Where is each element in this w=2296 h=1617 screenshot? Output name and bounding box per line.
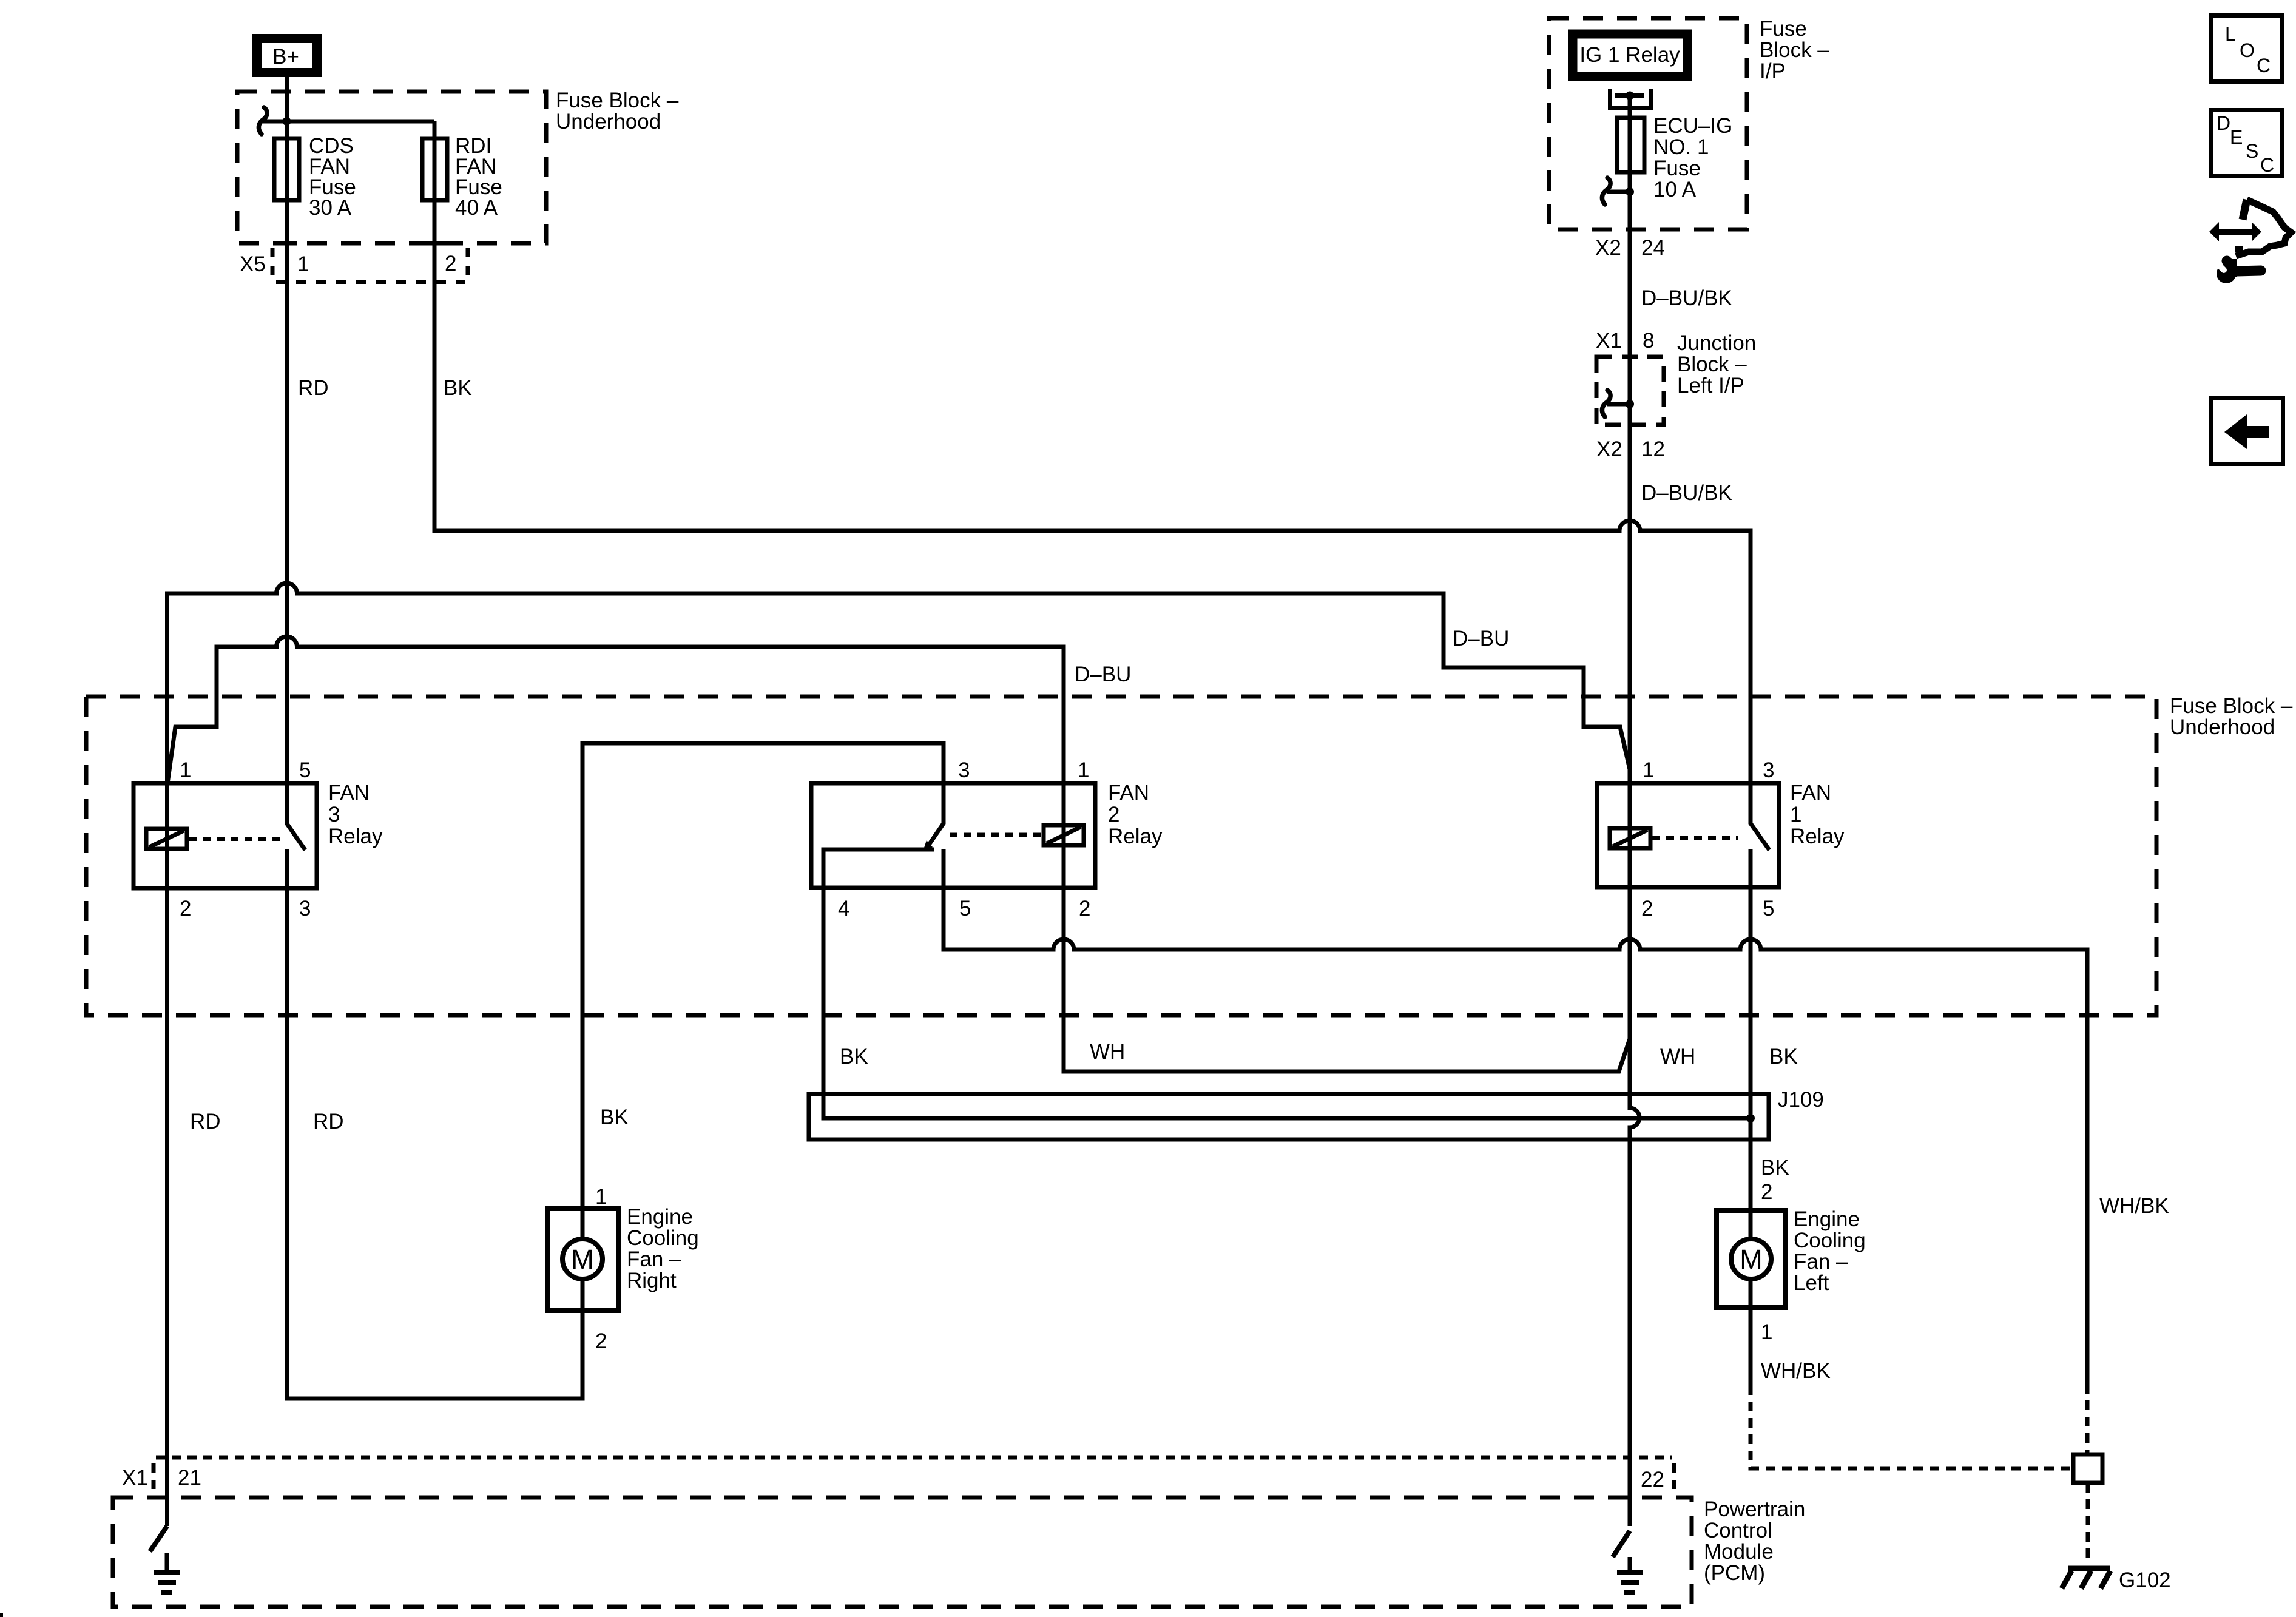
wire: D-BU net FAN 3 relay pin 1 to FAN 2 relay pin 1 — [167, 636, 1064, 783]
junction block J109 outline — [809, 1094, 1769, 1139]
svg-text:X1: X1 — [1596, 329, 1622, 353]
svg-text:3: 3 — [328, 803, 340, 826]
wire: FAN 1 relay pin 5 down through J109 to engine cooling fan left pin 2 (BK) — [1749, 888, 1753, 1239]
svg-text:D–BU: D–BU — [1075, 663, 1131, 686]
node: B+ feed split junction — [283, 117, 291, 126]
svg-text:D–BU: D–BU — [1453, 627, 1509, 650]
relay FAN 2 outline — [811, 783, 1095, 888]
svg-text:FAN: FAN — [1108, 781, 1149, 805]
svg-text:1: 1 — [297, 252, 309, 276]
fuse CDS FAN 30A — [274, 138, 299, 200]
svg-text:O: O — [2240, 39, 2255, 61]
svg-text:Relay: Relay — [328, 825, 383, 848]
svg-text:BK: BK — [444, 376, 472, 400]
svg-text:1: 1 — [180, 758, 191, 782]
svg-text:Fan –: Fan – — [627, 1247, 681, 1271]
svg-text:30 A: 30 A — [309, 196, 352, 220]
svg-text:2: 2 — [445, 252, 456, 275]
svg-text:Left I/P: Left I/P — [1677, 374, 1744, 397]
powertrain control module dashed box — [113, 1497, 1692, 1607]
svg-text:RD: RD — [313, 1110, 344, 1133]
relay FAN 3 switch — [287, 783, 306, 850]
svg-text:E: E — [2230, 126, 2243, 148]
svg-text:Block –: Block – — [1677, 353, 1747, 376]
power symbol B+ box — [257, 39, 317, 73]
node: ECU-IG fuse output junction — [1626, 187, 1634, 196]
svg-text:D–BU/BK: D–BU/BK — [1641, 481, 1732, 505]
svg-text:M: M — [1740, 1244, 1763, 1275]
ground connector square — [2073, 1454, 2102, 1483]
svg-text:D–BU/BK: D–BU/BK — [1641, 286, 1732, 310]
ground inside PCM (pin 22) — [1628, 1557, 1632, 1573]
svg-text:Powertrain: Powertrain — [1704, 1497, 1805, 1521]
svg-text:Underhood: Underhood — [556, 110, 661, 133]
wire: ground connector to G102 — [2086, 1483, 2090, 1564]
page corner mark — [0, 1613, 3, 1617]
ground G102 chassis symbol — [2068, 1566, 2110, 1571]
svg-text:1: 1 — [1761, 1320, 1772, 1344]
PCM internal switch to ground at pin 22 — [1613, 1531, 1630, 1557]
svg-text:G102: G102 — [2119, 1568, 2171, 1592]
motor engine cooling fan - right — [548, 1209, 619, 1311]
relay FAN 2 switch — [928, 783, 944, 846]
svg-text:3: 3 — [299, 897, 311, 920]
svg-text:X2: X2 — [1596, 437, 1622, 461]
junction block internal bus curl — [1602, 390, 1610, 417]
svg-text:IG 1 Relay: IG 1 Relay — [1579, 43, 1680, 67]
wire: FAN 1 relay pin 2 down to PCM pin 22 (WH) — [1630, 888, 1639, 1526]
svg-text:4: 4 — [838, 897, 849, 920]
connector X5 row dashed outline — [276, 280, 465, 284]
ground inside PCM (pin 21) — [165, 1553, 169, 1573]
icon LOC box — [2211, 16, 2282, 82]
svg-text:21: 21 — [178, 1466, 201, 1490]
wire: branch from B+ junction to RDI FAN fuse — [262, 120, 434, 124]
svg-text:Cooling: Cooling — [1794, 1229, 1866, 1252]
node: IG 1 relay output junction — [1626, 92, 1634, 100]
wire: engine cooling fan left pin 1 dashed run to ground splice — [1751, 1385, 2073, 1468]
relay box IG 1 Relay — [1573, 34, 1687, 76]
svg-text:D: D — [2217, 112, 2230, 134]
svg-text:5: 5 — [299, 758, 311, 782]
svg-text:X5: X5 — [240, 252, 266, 276]
svg-text:Fuse Block –: Fuse Block – — [556, 89, 679, 112]
svg-text:C: C — [2257, 55, 2271, 76]
svg-text:NO. 1: NO. 1 — [1653, 135, 1709, 159]
fuse block internal bus curl at B+ junction — [258, 107, 267, 134]
wire: FAN 1 relay internal coil feed — [1628, 783, 1632, 887]
svg-text:1: 1 — [1078, 758, 1089, 782]
svg-text:1: 1 — [1790, 803, 1801, 826]
relay FAN 3 outline — [133, 783, 317, 888]
svg-text:Right: Right — [627, 1269, 677, 1292]
junction block - left I/P dashed box — [1596, 357, 1664, 425]
svg-text:Fuse Block –: Fuse Block – — [2170, 694, 2293, 718]
svg-text:12: 12 — [1641, 437, 1665, 461]
svg-text:24: 24 — [1641, 236, 1665, 260]
svg-text:WH: WH — [1090, 1040, 1125, 1064]
svg-text:5: 5 — [959, 897, 971, 920]
svg-text:ECU–IG: ECU–IG — [1653, 114, 1732, 138]
svg-text:2: 2 — [1641, 897, 1653, 920]
wire: FAN 2 relay pin 3 to engine cooling fan right pin 1 (BK) — [582, 743, 944, 1239]
svg-text:Fan –: Fan – — [1794, 1250, 1848, 1274]
fuse block internal bus curl at ECU-IG fuse output — [1602, 178, 1610, 204]
svg-text:FAN: FAN — [328, 781, 370, 805]
fuse holder bracket below IG 1 Relay — [1610, 89, 1651, 109]
wire: FAN 2 relay internal coil feed — [1062, 783, 1066, 888]
svg-text:2: 2 — [1761, 1180, 1772, 1204]
wire: FAN 3 relay internal coil feed — [165, 783, 169, 888]
svg-text:RD: RD — [190, 1110, 221, 1133]
svg-text:(PCM): (PCM) — [1704, 1561, 1765, 1585]
svg-text:Cooling: Cooling — [627, 1226, 699, 1250]
svg-text:J109: J109 — [1778, 1088, 1824, 1112]
wire: FAN 2 relay pin 4 to J109 splice (BK) — [823, 888, 1751, 1118]
wire: right WH/BK dashed to ground connector — [2085, 1384, 2090, 1454]
fuse block - underhood (middle) dashed box — [86, 697, 2156, 1015]
wire: FAN 1/FAN 2 relay pin 5 run to right WH/BK drop — [944, 888, 2087, 1384]
svg-text:Engine: Engine — [1794, 1207, 1860, 1231]
svg-text:BK: BK — [840, 1045, 868, 1068]
svg-text:Underhood: Underhood — [2170, 715, 2275, 739]
svg-text:Fuse: Fuse — [1653, 157, 1701, 180]
wire: IG1 relay through ECU-IG fuse down to FAN 1 relay pin 1 (D-BU/BK) — [1628, 96, 1632, 784]
svg-text:B+: B+ — [272, 45, 299, 69]
svg-text:S: S — [2246, 140, 2258, 162]
svg-text:40 A: 40 A — [455, 196, 498, 220]
svg-text:Relay: Relay — [1790, 825, 1845, 848]
svg-text:3: 3 — [958, 758, 970, 782]
icon back-arrow box — [2211, 399, 2283, 464]
svg-text:WH/BK: WH/BK — [2099, 1194, 2169, 1218]
svg-text:10 A: 10 A — [1653, 178, 1697, 201]
relay FAN 3 coil-switch link — [189, 837, 283, 841]
PCM internal switch to ground at pin 21 — [150, 1526, 167, 1551]
fuse block - I/P dashed box — [1549, 18, 1747, 229]
fuse ECU-IG NO. 1 10A — [1617, 118, 1644, 172]
svg-text:BK: BK — [1769, 1045, 1798, 1068]
svg-text:Engine: Engine — [627, 1205, 693, 1229]
svg-text:5: 5 — [1763, 897, 1774, 920]
svg-text:X2: X2 — [1595, 236, 1621, 260]
svg-text:Module: Module — [1704, 1540, 1774, 1564]
wire: engine cooling fan left pin 1 (WH/BK) solid part — [1749, 1279, 1753, 1385]
wire: engine cooling fan right pin 2 to FAN 3 relay pin 3 (RD) — [287, 888, 583, 1399]
svg-text:X1: X1 — [122, 1466, 148, 1490]
wire: RDI FAN fuse drop, down then right to FAN 1 relay pin 3 (BK) — [434, 121, 1751, 783]
svg-text:FAN: FAN — [1790, 781, 1831, 805]
svg-text:WH: WH — [1660, 1045, 1695, 1068]
relay FAN 3 coil — [146, 829, 187, 849]
icon DESC box — [2211, 110, 2282, 177]
node: J109 splice junction — [1746, 1114, 1755, 1122]
svg-text:WH/BK: WH/BK — [1761, 1359, 1831, 1383]
svg-text:I/P: I/P — [1760, 59, 1786, 83]
svg-text:3: 3 — [1763, 758, 1774, 782]
svg-text:M: M — [571, 1244, 594, 1275]
svg-text:Fuse: Fuse — [1760, 17, 1807, 41]
wire: FAN 3 relay pin 2 down to PCM pin 21 (RD) — [165, 888, 169, 1526]
wire: D-BU net FAN 3 relay pin 1 to FAN 1 relay pin 1 — [167, 583, 1630, 783]
svg-text:1: 1 — [1643, 758, 1654, 782]
svg-text:2: 2 — [1108, 803, 1119, 826]
svg-text:2: 2 — [1079, 897, 1090, 920]
svg-text:22: 22 — [1641, 1468, 1664, 1491]
wire: B+ down through CDS FAN fuse to FAN 3 relay pin 5 (RD) — [285, 77, 289, 783]
svg-text:Block –: Block – — [1760, 38, 1829, 62]
svg-text:L: L — [2225, 23, 2236, 45]
svg-text:2: 2 — [180, 897, 191, 920]
svg-text:1: 1 — [595, 1185, 607, 1209]
relay FAN 2 coil-switch link — [950, 833, 1042, 837]
motor engine cooling fan - left — [1717, 1210, 1786, 1308]
svg-text:Relay: Relay — [1108, 825, 1163, 848]
fuse block - underhood (top) dashed box — [237, 92, 546, 243]
svg-text:BK: BK — [1761, 1156, 1789, 1180]
svg-text:Control: Control — [1704, 1519, 1772, 1542]
relay FAN 1 coil — [1610, 828, 1650, 848]
icon hand with double arrow and wrench — [2209, 222, 2219, 241]
relay FAN 2 coil — [1044, 825, 1084, 845]
svg-text:BK: BK — [600, 1106, 629, 1129]
relay FAN 1 switch — [1751, 783, 1769, 850]
svg-text:Junction: Junction — [1677, 331, 1756, 355]
fuse RDI FAN 40A — [422, 138, 447, 200]
relay FAN 1 outline — [1597, 783, 1779, 887]
connector X1 strip dashed line — [156, 1456, 1672, 1460]
svg-text:RD: RD — [298, 376, 329, 400]
node: junction block splice — [1626, 400, 1634, 408]
wire: FAN 2 relay pin 2 to WH column (WH) — [1064, 888, 1630, 1072]
relay FAN 1 coil-switch link — [1652, 836, 1738, 840]
svg-text:8: 8 — [1643, 329, 1654, 353]
svg-text:2: 2 — [595, 1329, 607, 1353]
svg-text:Left: Left — [1794, 1271, 1829, 1295]
svg-text:C: C — [2260, 154, 2274, 176]
